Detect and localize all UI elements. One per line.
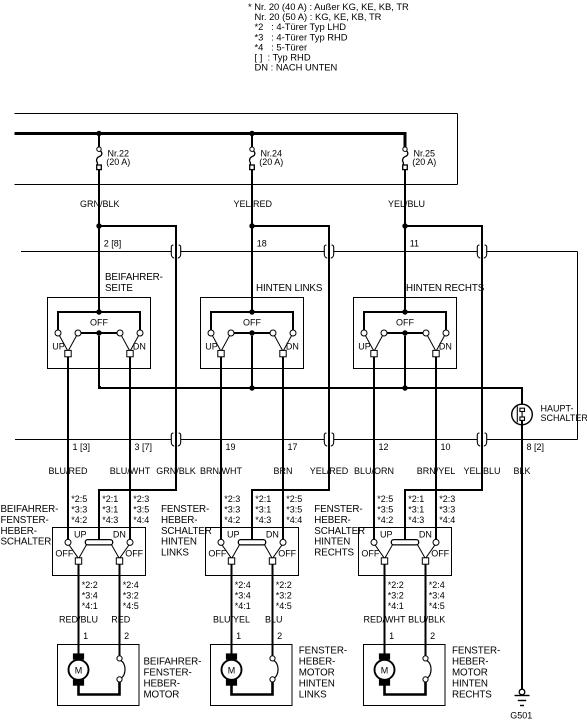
svg-text:SCHALTER: SCHALTER bbox=[1, 537, 52, 548]
switch BEIFAHRERSEITE output contact left bbox=[65, 350, 71, 356]
svg-text:*4:1: *4:1 bbox=[82, 601, 98, 611]
svg-text:M: M bbox=[381, 666, 389, 676]
fuse Nr.24 (20 A) bbox=[250, 147, 254, 151]
lower switch FENSTERHEBER-SCHALTER HINTEN RECHTS pivot contact right bbox=[433, 539, 439, 545]
wire GRN/BLK fuse to switch bbox=[98, 170, 100, 313]
svg-text:HAUPT-: HAUPT- bbox=[541, 404, 574, 414]
lower switch FENSTERHEBER-SCHALTER HINTEN RECHTS rocker contact bbox=[391, 540, 418, 545]
svg-text:1: 1 bbox=[389, 631, 394, 641]
svg-text:YEL/BLU: YEL/BLU bbox=[388, 199, 425, 209]
wire YEL/RED branch to window switch 2 bbox=[252, 226, 329, 541]
fuse Nr.25 (20 A) bbox=[403, 147, 407, 151]
svg-text:UP: UP bbox=[227, 529, 240, 539]
wire BRN/WHT switch HINTEN LINKS to lower switch bbox=[220, 357, 222, 540]
svg-text:DN: DN bbox=[419, 529, 432, 539]
svg-text:BLU/ORN: BLU/ORN bbox=[354, 466, 394, 476]
switch HINTEN RECHTS DN contact bbox=[443, 330, 449, 336]
svg-text:*3:2: *3:2 bbox=[123, 591, 139, 601]
switch HINTEN LINKS OFF contact right bbox=[270, 330, 276, 336]
svg-text:(20 A): (20 A) bbox=[412, 157, 436, 167]
svg-text:*3:5: *3:5 bbox=[286, 504, 302, 514]
motor FENSTERHEBERMOTOR HINTEN RECHTS brush bottom bbox=[379, 679, 390, 685]
svg-text:*3:2: *3:2 bbox=[276, 591, 292, 601]
svg-text:2: 2 bbox=[277, 631, 282, 641]
switch HINTEN RECHTS output contact left bbox=[371, 350, 377, 356]
lower switch FENSTERHEBER-SCHALTER BEIFAHRER rocker contact bbox=[85, 540, 112, 545]
svg-text:HINTEN: HINTEN bbox=[452, 678, 488, 689]
switch BEIFAHRERSEITE common rail bbox=[81, 332, 117, 334]
wire BRN/YEL switch HINTEN RECHTS to lower switch bbox=[435, 357, 437, 540]
svg-text:*2:3: *2:3 bbox=[439, 494, 455, 504]
switch HINTEN LINKS UP contact bbox=[208, 330, 214, 336]
wire BLU/YEL lower switch to motor bbox=[231, 564, 233, 653]
fuse Nr.22 (20 A) bbox=[97, 147, 101, 151]
svg-text:2 [8]: 2 [8] bbox=[104, 238, 122, 248]
svg-text:*4:3: *4:3 bbox=[408, 515, 424, 525]
svg-text:FENSTER-: FENSTER- bbox=[452, 645, 500, 656]
switch HINTEN RECHTS common wire down bbox=[404, 336, 406, 389]
lower switch FENSTERHEBER-SCHALTER HINTEN LINKS pivot contact left bbox=[218, 539, 224, 545]
wire RED lower switch to motor bbox=[119, 564, 121, 656]
fuse box right edge bbox=[457, 114, 459, 185]
connector break row 1 at feed wire 1 bbox=[171, 245, 174, 258]
wire YEL/BLU branch to window switch 3 bbox=[405, 226, 482, 541]
svg-text:BRN: BRN bbox=[273, 466, 292, 476]
svg-text:*3:3: *3:3 bbox=[71, 504, 87, 514]
svg-text:*4:5: *4:5 bbox=[429, 601, 445, 611]
svg-text:OFF: OFF bbox=[55, 549, 73, 559]
connector line row 1 bbox=[21, 251, 578, 253]
motor BEIFAHRER-FENSTERHEBERMOTOR position contact crescent bbox=[121, 661, 125, 679]
ground G501 bbox=[519, 689, 525, 695]
wire GRN/BLK branch to window switch 1 bbox=[99, 226, 176, 541]
svg-text:MOTOR: MOTOR bbox=[452, 667, 488, 678]
junction bus to fuse Nr.22 bbox=[96, 131, 101, 136]
svg-text:*2:2: *2:2 bbox=[276, 580, 292, 590]
svg-text:*2:5: *2:5 bbox=[377, 494, 393, 504]
svg-text:12: 12 bbox=[379, 442, 389, 452]
connector break row 1 at feed wire 2 bbox=[324, 245, 327, 258]
lower switch FENSTERHEBER-SCHALTER HINTEN RECHTS pivot contact left bbox=[371, 539, 377, 545]
fuse box top edge bbox=[15, 113, 458, 115]
svg-text:OFF: OFF bbox=[243, 318, 261, 328]
lower switch FENSTERHEBER-SCHALTER BEIFAHRER pivot contact right bbox=[127, 539, 133, 545]
lower switch FENSTERHEBER-SCHALTER HINTEN LINKS pivot contact right bbox=[280, 539, 286, 545]
switch HINTEN RECHTS feed junction bbox=[402, 309, 407, 314]
power bus wire bbox=[15, 134, 407, 148]
connector break row 2 at feed wire 3 bbox=[477, 433, 480, 446]
svg-text:FENSTER-: FENSTER- bbox=[144, 667, 192, 678]
switch HINTEN RECHTS OFF contact left bbox=[381, 330, 387, 336]
switch HINTEN RECHTS common junction bbox=[402, 330, 407, 335]
svg-text:YEL/RED: YEL/RED bbox=[310, 466, 349, 476]
switch BEIFAHRERSEITE output contact right bbox=[127, 350, 133, 356]
svg-text:HINTEN: HINTEN bbox=[161, 537, 197, 548]
svg-text:BLU: BLU bbox=[265, 614, 283, 624]
lower switch FENSTERHEBER-SCHALTER HINTEN RECHTS blade right bbox=[426, 545, 435, 558]
wire BLU/ORN switch HINTEN RECHTS to lower switch bbox=[373, 357, 375, 540]
svg-text:SCHALTER: SCHALTER bbox=[314, 526, 365, 537]
svg-text:2: 2 bbox=[430, 631, 435, 641]
lower switch FENSTERHEBER-SCHALTER HINTEN LINKS box bbox=[206, 528, 299, 576]
svg-text:*2:2: *2:2 bbox=[388, 580, 404, 590]
svg-text:HINTEN RECHTS: HINTEN RECHTS bbox=[406, 283, 485, 294]
lower switch FENSTERHEBER-SCHALTER HINTEN RECHTS blade left bbox=[375, 545, 384, 558]
svg-text:BLU/YEL: BLU/YEL bbox=[213, 614, 250, 624]
svg-text:BEIFAHRER-: BEIFAHRER- bbox=[144, 656, 202, 667]
svg-text:OFF: OFF bbox=[396, 318, 414, 328]
svg-text:YEL/RED: YEL/RED bbox=[234, 199, 273, 209]
svg-text:*4:5: *4:5 bbox=[276, 601, 292, 611]
svg-text:(20 A): (20 A) bbox=[259, 157, 283, 167]
svg-text:*4:2: *4:2 bbox=[377, 515, 393, 525]
svg-text:*4:4: *4:4 bbox=[439, 515, 455, 525]
svg-text:*3:1: *3:1 bbox=[408, 504, 424, 514]
svg-text:1: 1 bbox=[236, 631, 241, 641]
svg-text:BLU/BLK: BLU/BLK bbox=[408, 614, 445, 624]
switch BEIFAHRERSEITE UP blade bbox=[59, 336, 67, 351]
svg-text:BRN/YEL: BRN/YEL bbox=[417, 466, 456, 476]
motor FENSTERHEBERMOTOR HINTEN RECHTS position contact crescent bbox=[427, 661, 431, 679]
svg-text:*4:3: *4:3 bbox=[102, 515, 118, 525]
svg-text:*3:4: *3:4 bbox=[235, 591, 251, 601]
motor BEIFAHRER-FENSTERHEBERMOTOR brush top bbox=[73, 653, 84, 659]
svg-text:10: 10 bbox=[441, 442, 451, 452]
svg-text:*2:1: *2:1 bbox=[102, 494, 118, 504]
svg-text:DN: DN bbox=[266, 529, 279, 539]
wire BLU/RED switch BEIFAHRERSEITE to lower switch bbox=[67, 357, 69, 540]
svg-text:RED: RED bbox=[111, 614, 131, 624]
svg-text:UP: UP bbox=[358, 341, 371, 351]
lower switch FENSTERHEBER-SCHALTER BEIFAHRER box bbox=[53, 528, 146, 576]
motor FENSTERHEBERMOTOR HINTEN RECHTS brush top bbox=[379, 653, 390, 659]
wire BLU/BLK lower switch to motor bbox=[425, 564, 427, 656]
svg-text:2: 2 bbox=[124, 631, 129, 641]
switch BEIFAHRERSEITE OFF contact left bbox=[75, 330, 81, 336]
motor FENSTERHEBERMOTOR HINTEN LINKS brush bottom bbox=[226, 679, 237, 685]
switch HINTEN RECHTS OFF contact right bbox=[423, 330, 429, 336]
motor BEIFAHRER-FENSTERHEBERMOTOR M symbol bbox=[69, 660, 89, 680]
svg-text:18: 18 bbox=[257, 238, 267, 248]
svg-text:BEIFAHRER-: BEIFAHRER- bbox=[1, 504, 59, 515]
switch HINTEN LINKS OFF contact left bbox=[228, 330, 234, 336]
switch HINTEN RECHTS UP blade bbox=[365, 336, 373, 351]
svg-text:HEBER-: HEBER- bbox=[299, 656, 335, 667]
svg-text:LINKS: LINKS bbox=[161, 547, 189, 558]
fuse box bottom edge bbox=[15, 184, 458, 186]
svg-text:*3:3: *3:3 bbox=[224, 504, 240, 514]
svg-text:*3:5: *3:5 bbox=[377, 504, 393, 514]
switch BEIFAHRERSEITE DN blade bbox=[131, 336, 139, 351]
svg-text:11: 11 bbox=[410, 238, 419, 248]
switch BEIFAHRERSEITE DN contact bbox=[137, 330, 143, 336]
lower switch FENSTERHEBER-SCHALTER HINTEN LINKS rocker contact bbox=[238, 540, 265, 545]
svg-text:RECHTS: RECHTS bbox=[314, 547, 354, 558]
svg-text:3 [7]: 3 [7] bbox=[135, 442, 153, 452]
lower switch FENSTERHEBER-SCHALTER BEIFAHRER output contact left bbox=[75, 558, 81, 564]
svg-text:*2:4: *2:4 bbox=[429, 580, 445, 590]
svg-text:*2:2: *2:2 bbox=[82, 580, 98, 590]
svg-text:OFF: OFF bbox=[90, 318, 108, 328]
svg-text:HEBER-: HEBER- bbox=[314, 515, 350, 526]
motor FENSTERHEBERMOTOR HINTEN RECHTS M symbol bbox=[375, 660, 395, 680]
junction YEL/RED branch bbox=[249, 223, 254, 228]
svg-text:BLU/RED: BLU/RED bbox=[48, 466, 88, 476]
connector break row 2 at feed wire 1 bbox=[171, 433, 174, 446]
svg-text:BLK: BLK bbox=[513, 466, 530, 476]
wire bus to fuse Nr.22 bbox=[98, 134, 100, 148]
svg-text:HINTEN LINKS: HINTEN LINKS bbox=[256, 283, 323, 294]
svg-text:*4:1: *4:1 bbox=[388, 601, 404, 611]
svg-text:OFF: OFF bbox=[208, 549, 226, 559]
svg-text:UP: UP bbox=[205, 341, 218, 351]
motor BEIFAHRER-FENSTERHEBERMOTOR brush bottom bbox=[73, 679, 84, 685]
switch HINTEN LINKS top rail bbox=[211, 312, 293, 330]
switch HINTEN RECHTS common rail bbox=[387, 332, 423, 334]
svg-text:*2:4: *2:4 bbox=[123, 580, 139, 590]
main switch HAUPT-SCHALTER bbox=[512, 404, 533, 425]
svg-text:DN: DN bbox=[286, 341, 299, 351]
svg-text:GRN/BLK: GRN/BLK bbox=[156, 466, 196, 476]
svg-text:8 [2]: 8 [2] bbox=[527, 442, 545, 452]
svg-text:LINKS: LINKS bbox=[299, 689, 327, 700]
svg-text:1 [3]: 1 [3] bbox=[73, 442, 91, 452]
svg-text:*3:4: *3:4 bbox=[82, 591, 98, 601]
switch BEIFAHRERSEITE top rail bbox=[58, 312, 140, 330]
lower switch FENSTERHEBER-SCHALTER HINTEN RECHTS output contact left bbox=[381, 558, 387, 564]
switch HINTEN RECHTS top rail bbox=[364, 312, 446, 330]
motor BEIFAHRER-FENSTERHEBERMOTOR internal wire loop bbox=[79, 682, 120, 695]
svg-text:SEITE: SEITE bbox=[105, 283, 133, 294]
wire BLU lower switch to motor bbox=[272, 564, 274, 656]
svg-text:*4:2: *4:2 bbox=[71, 515, 87, 525]
svg-text:YEL/BLU: YEL/BLU bbox=[463, 466, 500, 476]
connector break row 1 at feed wire 3 bbox=[477, 245, 480, 258]
svg-text:*4:2: *4:2 bbox=[224, 515, 240, 525]
svg-text:*2:1: *2:1 bbox=[255, 494, 271, 504]
window switch HINTEN RECHTS box bbox=[354, 298, 457, 369]
svg-text:BEIFAHRER-: BEIFAHRER- bbox=[105, 272, 163, 283]
window switch BEIFAHRERSEITE box bbox=[48, 298, 151, 369]
svg-text:M: M bbox=[75, 666, 83, 676]
switch HINTEN LINKS common rail bbox=[234, 332, 270, 334]
svg-text:BLU/WHT: BLU/WHT bbox=[110, 466, 151, 476]
lower switch FENSTERHEBER-SCHALTER BEIFAHRER output contact right bbox=[116, 558, 122, 564]
junction YEL/BLU branch bbox=[402, 223, 407, 228]
switch BEIFAHRERSEITE common wire down bbox=[98, 336, 100, 389]
svg-text:FENSTER-: FENSTER- bbox=[1, 515, 49, 526]
lower switch FENSTERHEBER-SCHALTER HINTEN RECHTS output contact right bbox=[422, 558, 428, 564]
switch BEIFAHRERSEITE feed junction bbox=[96, 309, 101, 314]
svg-text:OFF: OFF bbox=[361, 549, 379, 559]
svg-text:UP: UP bbox=[74, 529, 87, 539]
svg-text:OFF: OFF bbox=[278, 549, 296, 559]
svg-text:HEBER-: HEBER- bbox=[452, 656, 488, 667]
svg-text:*2:5: *2:5 bbox=[286, 494, 302, 504]
connector line row 2 bbox=[15, 439, 578, 441]
switch HINTEN LINKS DN blade bbox=[284, 336, 292, 351]
svg-text:RECHTS: RECHTS bbox=[452, 689, 492, 700]
svg-text:HINTEN: HINTEN bbox=[314, 537, 350, 548]
motor BEIFAHRER-FENSTERHEBERMOTOR box bbox=[58, 645, 140, 706]
svg-text:*2:3: *2:3 bbox=[224, 494, 240, 504]
svg-text:19: 19 bbox=[226, 442, 236, 452]
junction GRN/BLK branch bbox=[96, 223, 101, 228]
svg-text:DN: DN bbox=[439, 341, 452, 351]
svg-text:UP: UP bbox=[380, 529, 393, 539]
svg-text:17: 17 bbox=[288, 442, 298, 452]
svg-text:DN : NACH UNTEN: DN : NACH UNTEN bbox=[255, 62, 338, 73]
svg-text:FENSTER-: FENSTER- bbox=[299, 645, 347, 656]
svg-text:RED/BLU: RED/BLU bbox=[59, 614, 98, 624]
svg-text:HEBER-: HEBER- bbox=[161, 515, 197, 526]
wire BLU/WHT switch BEIFAHRERSEITE to lower switch bbox=[129, 357, 131, 540]
svg-text:GRN/BLK: GRN/BLK bbox=[80, 199, 120, 209]
motor FENSTERHEBERMOTOR HINTEN LINKS position contact crescent bbox=[274, 661, 278, 679]
wire YEL/RED fuse to switch bbox=[251, 170, 253, 313]
svg-text:(20 A): (20 A) bbox=[106, 157, 130, 167]
svg-text:MOTOR: MOTOR bbox=[299, 667, 335, 678]
junction common wire column 2 bbox=[249, 385, 254, 390]
svg-text:DN: DN bbox=[113, 529, 126, 539]
svg-text:HINTEN: HINTEN bbox=[299, 678, 335, 689]
svg-text:*3:1: *3:1 bbox=[102, 504, 118, 514]
svg-text:HEBER-: HEBER- bbox=[1, 526, 37, 537]
svg-text:RED/WHT: RED/WHT bbox=[364, 614, 406, 624]
switch BEIFAHRERSEITE OFF contact right bbox=[117, 330, 123, 336]
svg-text:*4:4: *4:4 bbox=[133, 515, 149, 525]
junction bus to fuse Nr.24 bbox=[249, 131, 254, 136]
svg-text:*4:5: *4:5 bbox=[123, 601, 139, 611]
svg-text:FENSTER-: FENSTER- bbox=[314, 504, 362, 515]
wire bus to fuse Nr.24 bbox=[251, 134, 253, 148]
switch HINTEN LINKS common junction bbox=[249, 330, 254, 335]
svg-text:HEBER-: HEBER- bbox=[144, 678, 180, 689]
svg-text:*3:1: *3:1 bbox=[255, 504, 271, 514]
junction common wire column 3 bbox=[402, 385, 407, 390]
svg-text:SCHALTER: SCHALTER bbox=[541, 413, 587, 423]
svg-text:MOTOR: MOTOR bbox=[144, 689, 180, 700]
svg-text:*2:1: *2:1 bbox=[408, 494, 424, 504]
switch BEIFAHRERSEITE common junction bbox=[96, 330, 101, 335]
wire RED/BLU lower switch to motor bbox=[78, 564, 80, 653]
switch HINTEN LINKS feed junction bbox=[249, 309, 254, 314]
wire BRN switch HINTEN LINKS to lower switch bbox=[282, 357, 284, 540]
lower switch FENSTERHEBER-SCHALTER HINTEN LINKS blade right bbox=[273, 545, 282, 558]
svg-text:OFF: OFF bbox=[125, 549, 143, 559]
motor FENSTERHEBERMOTOR HINTEN LINKS brush top bbox=[226, 653, 237, 659]
connector wrap wire right edge bbox=[577, 252, 579, 440]
switch HINTEN LINKS common wire down bbox=[251, 336, 253, 389]
svg-text:UP: UP bbox=[52, 341, 65, 351]
window switch HINTEN LINKS box bbox=[201, 298, 304, 369]
svg-text:DN: DN bbox=[133, 341, 146, 351]
lower switch FENSTERHEBER-SCHALTER HINTEN LINKS blade left bbox=[222, 545, 231, 558]
switch HINTEN LINKS output contact left bbox=[218, 350, 224, 356]
svg-text:*3:4: *3:4 bbox=[429, 591, 445, 601]
svg-text:SCHALTER: SCHALTER bbox=[161, 526, 212, 537]
wire switch commons to HAUPT-SCHALTER bbox=[99, 386, 522, 408]
svg-text:*2:4: *2:4 bbox=[235, 580, 251, 590]
lower switch FENSTERHEBER-SCHALTER HINTEN RECHTS box bbox=[359, 528, 452, 576]
wire BLK main switch to ground bbox=[521, 420, 523, 689]
svg-text:*2:5: *2:5 bbox=[71, 494, 87, 504]
motor FENSTERHEBERMOTOR HINTEN LINKS M symbol bbox=[222, 660, 242, 680]
svg-text:*3:5: *3:5 bbox=[133, 504, 149, 514]
motor FENSTERHEBERMOTOR HINTEN RECHTS box bbox=[364, 645, 446, 706]
switch HINTEN RECHTS output contact right bbox=[433, 350, 439, 356]
switch BEIFAHRERSEITE UP contact bbox=[55, 330, 61, 336]
svg-text:*3:3: *3:3 bbox=[439, 504, 455, 514]
svg-text:M: M bbox=[228, 666, 236, 676]
svg-text:G501: G501 bbox=[510, 711, 532, 721]
switch HINTEN LINKS DN contact bbox=[290, 330, 296, 336]
lower switch FENSTERHEBER-SCHALTER HINTEN LINKS output contact right bbox=[269, 558, 275, 564]
svg-text:1: 1 bbox=[83, 631, 88, 641]
svg-text:BRN/WHT: BRN/WHT bbox=[200, 466, 242, 476]
motor FENSTERHEBERMOTOR HINTEN RECHTS internal wire loop bbox=[385, 682, 426, 695]
motor FENSTERHEBERMOTOR HINTEN LINKS internal wire loop bbox=[232, 682, 273, 695]
switch HINTEN RECHTS UP contact bbox=[361, 330, 367, 336]
svg-text:OFF: OFF bbox=[431, 549, 449, 559]
svg-text:*4:3: *4:3 bbox=[255, 515, 271, 525]
wire RED/WHT lower switch to motor bbox=[384, 564, 386, 653]
connector break row 2 at feed wire 2 bbox=[324, 433, 327, 446]
lower switch FENSTERHEBER-SCHALTER HINTEN LINKS output contact left bbox=[228, 558, 234, 564]
svg-text:*2:3: *2:3 bbox=[133, 494, 149, 504]
motor FENSTERHEBERMOTOR HINTEN LINKS box bbox=[211, 645, 293, 706]
wire YEL/BLU fuse to switch bbox=[404, 170, 406, 313]
svg-text:*4:1: *4:1 bbox=[235, 601, 251, 611]
lower switch FENSTERHEBER-SCHALTER BEIFAHRER blade left bbox=[69, 545, 78, 558]
switch HINTEN LINKS output contact right bbox=[280, 350, 286, 356]
switch HINTEN LINKS UP blade bbox=[212, 336, 220, 351]
svg-text:*4:4: *4:4 bbox=[286, 515, 302, 525]
svg-text:FENSTER-: FENSTER- bbox=[161, 504, 209, 515]
switch HINTEN RECHTS DN blade bbox=[437, 336, 445, 351]
lower switch FENSTERHEBER-SCHALTER BEIFAHRER pivot contact left bbox=[65, 539, 71, 545]
lower switch FENSTERHEBER-SCHALTER BEIFAHRER blade right bbox=[120, 545, 129, 558]
svg-text:*3:2: *3:2 bbox=[388, 591, 404, 601]
